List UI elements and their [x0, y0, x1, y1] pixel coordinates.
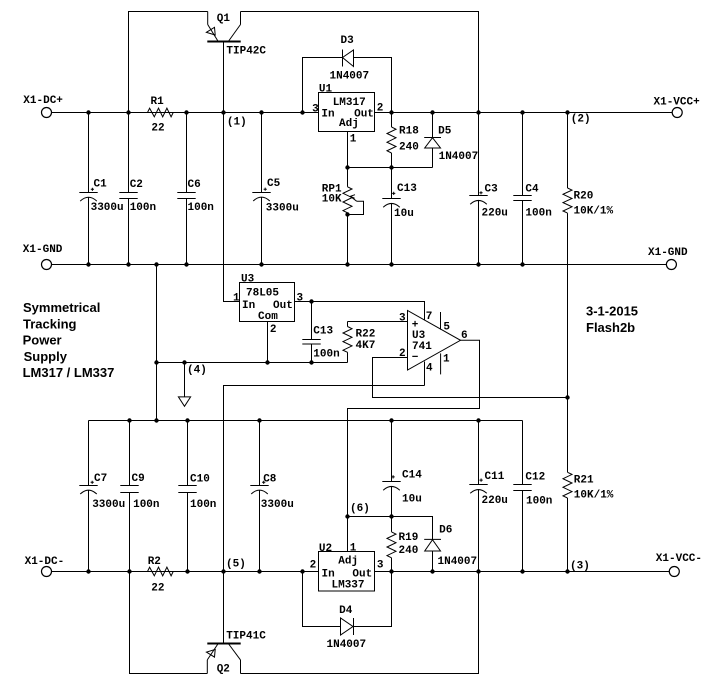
svg-text:4: 4	[426, 363, 433, 375]
svg-text:Tracking: Tracking	[23, 316, 77, 331]
capacitor C1	[79, 113, 123, 265]
svg-text:100n: 100n	[133, 499, 159, 511]
node gnd drop bottom	[154, 418, 158, 422]
transistor Q1	[206, 12, 266, 113]
wire U1 Adj pin down	[347, 132, 349, 168]
node C6 junction	[184, 110, 188, 114]
resistor R19	[387, 517, 418, 572]
wire ground rail	[52, 264, 667, 266]
svg-text:220u: 220u	[482, 208, 508, 220]
svg-text:1N4007: 1N4007	[438, 556, 478, 568]
svg-text:10u: 10u	[402, 494, 422, 506]
wire X1-DC- to U2 In (bottom negative rail)	[52, 571, 319, 573]
resistor R1	[148, 96, 174, 135]
node C9 top	[127, 418, 131, 422]
svg-text:240: 240	[399, 142, 419, 154]
svg-text:Q2: Q2	[217, 664, 230, 676]
node C8 top	[257, 418, 261, 422]
svg-text:100n: 100n	[188, 202, 214, 214]
wire node (4) horizontal	[157, 362, 348, 364]
svg-text:22: 22	[151, 123, 164, 135]
node C1 gnd	[86, 262, 90, 266]
wire op-amp pin 4 to node (5)	[224, 386, 425, 572]
wire Q2 collector to output rail	[241, 572, 479, 674]
svg-text:C4: C4	[525, 184, 539, 196]
node C5 gnd	[259, 262, 263, 266]
node C12 bottom	[520, 569, 524, 573]
svg-text:D3: D3	[341, 35, 355, 47]
capacitor C13 (10u)	[382, 168, 417, 265]
svg-text:In: In	[242, 300, 255, 312]
node C4 gnd	[520, 262, 524, 266]
svg-text:10K/1%: 10K/1%	[574, 490, 614, 502]
svg-text:100n: 100n	[525, 208, 551, 220]
capacitor C8	[250, 421, 294, 572]
node C14/R19 junction	[389, 514, 393, 518]
capacitor C2	[119, 113, 156, 265]
diode D6	[424, 525, 477, 572]
svg-text:R2: R2	[148, 556, 161, 568]
svg-text:1N4007: 1N4007	[439, 151, 479, 163]
svg-text:Adj: Adj	[338, 555, 358, 567]
wire U1 Out rail to X1-VCC+	[375, 112, 673, 114]
resistor R21	[563, 398, 614, 572]
svg-text:C12: C12	[525, 472, 545, 484]
diode D3	[303, 35, 392, 113]
svg-text:3300u: 3300u	[91, 202, 124, 214]
op-amp U3 741	[399, 311, 468, 386]
svg-text:7: 7	[426, 311, 433, 323]
svg-text:U2: U2	[319, 543, 332, 555]
diode D4	[303, 572, 392, 652]
svg-text:D4: D4	[339, 605, 353, 617]
svg-text:R20: R20	[574, 191, 594, 203]
node C14 top	[389, 418, 393, 422]
terminal X1-GND right	[648, 247, 688, 270]
svg-text:4K7: 4K7	[356, 340, 376, 352]
svg-text:1N4007: 1N4007	[327, 639, 367, 651]
resistor R22	[343, 322, 375, 363]
svg-text:Power: Power	[23, 333, 62, 348]
resistor R18	[387, 113, 419, 168]
node Com junction	[265, 360, 269, 364]
node C3 / Q1 collector junction	[476, 110, 480, 114]
svg-text:Q1: Q1	[217, 13, 231, 25]
svg-text:D6: D6	[439, 525, 452, 537]
wire R22 top to op-amp pin 3	[348, 321, 408, 323]
svg-text:C2: C2	[130, 179, 143, 191]
wire node R1-left up to Q1 emitter	[129, 12, 208, 113]
svg-text:1: 1	[350, 134, 357, 146]
node C8 bottom	[257, 569, 261, 573]
svg-text:C8: C8	[263, 474, 277, 486]
regulator U3 78L05	[233, 274, 304, 337]
svg-text:R19: R19	[399, 532, 419, 544]
svg-text:C9: C9	[132, 473, 145, 485]
svg-text:D5: D5	[438, 126, 452, 138]
svg-text:LM317: LM317	[333, 97, 366, 109]
wire U2 Out rail to X1-VCC-	[375, 571, 670, 573]
wire op-amp output 6 to node (6)	[348, 340, 480, 551]
wire Adj node horizontal	[348, 167, 433, 169]
node D5 junction	[430, 110, 434, 114]
terminal X1-DC-	[25, 556, 65, 577]
svg-text:2: 2	[399, 348, 406, 360]
svg-text:Adj: Adj	[339, 118, 359, 130]
svg-text:(6): (6)	[350, 503, 370, 515]
svg-text:(2): (2)	[571, 114, 591, 126]
svg-text:240: 240	[399, 545, 419, 557]
svg-text:C7: C7	[94, 473, 107, 485]
svg-text:1: 1	[443, 354, 450, 366]
node C11 top	[476, 418, 480, 422]
wire U3 Com down	[267, 322, 269, 363]
capacitor C14	[382, 421, 422, 517]
svg-text:X1-VCC-: X1-VCC-	[656, 553, 702, 565]
wire gnd drop from gnd rail to lower gnd rail	[156, 265, 158, 421]
svg-text:3300u: 3300u	[92, 499, 125, 511]
svg-text:C10: C10	[190, 474, 210, 486]
terminal X1-VCC+	[654, 97, 701, 118]
ground symbol	[178, 363, 190, 407]
node RP1 gnd	[345, 262, 349, 266]
svg-text:3-1-2015: 3-1-2015	[586, 304, 638, 319]
wire U3 Out to op-amp pin 7	[295, 302, 425, 321]
node C13 100n top	[309, 299, 313, 303]
svg-text:C3: C3	[485, 184, 499, 196]
svg-text:2: 2	[310, 560, 317, 572]
svg-text:LM317 / LM337: LM317 / LM337	[23, 365, 115, 380]
svg-text:−: −	[412, 352, 419, 364]
svg-text:R22: R22	[356, 329, 376, 341]
wire X1-DC+ to U1 In (top positive rail)	[52, 112, 319, 114]
svg-text:X1-DC-: X1-DC-	[25, 556, 65, 568]
node R18/D3 junction	[389, 110, 393, 114]
terminal X1-DC+	[23, 95, 63, 118]
svg-text:100n: 100n	[526, 496, 552, 508]
svg-text:R18: R18	[399, 126, 419, 138]
node (3) R21 junction	[565, 561, 590, 574]
node R18 bottom junction	[389, 165, 393, 169]
node C5 junction	[259, 110, 263, 114]
capacitor C10	[178, 421, 216, 572]
svg-text:5: 5	[443, 322, 450, 334]
svg-text:Supply: Supply	[24, 349, 68, 364]
svg-text:1: 1	[233, 293, 240, 305]
capacitor C5	[252, 113, 299, 265]
capacitor C9	[120, 421, 159, 572]
svg-text:C1: C1	[94, 179, 108, 191]
node U2 In / D4 junction	[300, 569, 304, 573]
regulator U2 LM337	[310, 543, 384, 592]
node C3 gnd	[476, 262, 480, 266]
svg-text:X1-GND: X1-GND	[648, 247, 688, 259]
svg-text:TIP41C: TIP41C	[226, 631, 266, 643]
terminal X1-GND left	[23, 244, 63, 270]
svg-text:C13: C13	[397, 183, 417, 195]
op-amp regulator U1 LM317	[312, 84, 383, 146]
transistor Q2	[206, 572, 266, 676]
node C13 gnd	[389, 262, 393, 266]
svg-text:C5: C5	[267, 178, 281, 190]
svg-text:220u: 220u	[482, 495, 508, 507]
svg-text:Com: Com	[258, 311, 278, 323]
terminal X1-VCC-	[656, 553, 702, 577]
wire node (6) horizontal	[348, 517, 433, 540]
svg-text:100n: 100n	[130, 202, 156, 214]
svg-text:C11: C11	[485, 471, 505, 483]
svg-text:(5): (5)	[226, 559, 246, 571]
node D6 bottom	[430, 569, 434, 573]
wire op-amp pin 2 feedback to R20/R21 node	[373, 358, 568, 398]
svg-text:10K/1%: 10K/1%	[574, 206, 614, 218]
wire node (1) down to U3 78L05 In	[224, 113, 240, 302]
capacitor C12	[513, 421, 552, 572]
svg-text:C6: C6	[188, 179, 201, 191]
svg-text:In: In	[321, 109, 334, 121]
svg-text:LM337: LM337	[332, 580, 365, 592]
svg-text:C14: C14	[402, 470, 422, 482]
capacitor C13 (100n)	[302, 302, 339, 363]
node C11 / Q2 collector junction	[476, 569, 480, 573]
svg-text:100n: 100n	[190, 499, 216, 511]
node C2 gnd	[126, 262, 130, 266]
node C6 gnd	[184, 262, 188, 266]
wire Q1 collector to output rail	[241, 12, 479, 113]
diode D5	[424, 113, 478, 168]
node C13 100n bottom	[309, 360, 313, 364]
svg-text:3: 3	[399, 313, 406, 325]
svg-text:X1-VCC+: X1-VCC+	[654, 97, 701, 109]
svg-text:3: 3	[312, 104, 319, 116]
node (1)	[221, 110, 246, 128]
node R1 left junction	[126, 110, 130, 114]
svg-text:3: 3	[377, 560, 384, 572]
title text block	[23, 300, 115, 380]
node gnd drop	[154, 262, 158, 266]
node C1 junction	[86, 110, 90, 114]
resistor R2	[148, 556, 174, 595]
svg-text:(4): (4)	[187, 365, 207, 377]
node Adj/RP1 junction	[345, 165, 349, 169]
capacitor C3	[469, 113, 508, 265]
svg-text:(1): (1)	[227, 117, 247, 129]
node C9 / R2 left junction	[127, 569, 131, 573]
svg-text:TIP42C: TIP42C	[226, 46, 266, 58]
svg-text:X1-GND: X1-GND	[23, 244, 63, 256]
svg-text:3300u: 3300u	[261, 499, 294, 511]
capacitor C11	[469, 421, 508, 572]
svg-text:741: 741	[412, 341, 432, 353]
node (6)	[345, 503, 370, 519]
node C10 bottom	[185, 569, 189, 573]
svg-text:10u: 10u	[394, 208, 414, 220]
svg-text:3300u: 3300u	[266, 203, 299, 215]
node (2) R20 junction	[565, 110, 590, 125]
svg-text:R21: R21	[574, 475, 594, 487]
svg-text:1: 1	[350, 543, 357, 555]
svg-text:1N4007: 1N4007	[330, 71, 370, 83]
svg-text:2: 2	[270, 324, 277, 336]
svg-text:C13: C13	[313, 326, 333, 338]
wire lower ground rail	[89, 420, 523, 422]
svg-text:10K: 10K	[322, 194, 342, 206]
node C4 junction	[520, 110, 524, 114]
trimmer RP1	[322, 168, 364, 265]
svg-text:22: 22	[151, 583, 164, 595]
capacitor C6	[177, 113, 214, 265]
svg-text:Symmetrical: Symmetrical	[23, 300, 100, 315]
date text block	[586, 304, 638, 336]
svg-text:U3: U3	[241, 274, 255, 286]
wire node R2-left down to Q2 emitter	[130, 572, 208, 674]
svg-text:(3): (3)	[570, 561, 590, 573]
svg-text:3: 3	[297, 293, 304, 305]
node R19/D4 junction	[389, 569, 393, 573]
node U1 In / D3 junction	[300, 110, 304, 114]
capacitor C4	[513, 113, 552, 265]
svg-text:100n: 100n	[313, 349, 339, 361]
node (5)	[221, 559, 246, 574]
svg-text:78L05: 78L05	[246, 288, 279, 300]
svg-text:R1: R1	[151, 96, 165, 108]
node R20/R21 junction	[565, 395, 569, 399]
svg-text:Flash2b: Flash2b	[586, 320, 635, 335]
node (4)	[154, 360, 207, 376]
svg-text:X1-DC+: X1-DC+	[23, 95, 63, 107]
node C10 top	[185, 418, 189, 422]
svg-text:U1: U1	[319, 84, 333, 96]
node C7 bottom	[86, 569, 90, 573]
resistor R20	[563, 113, 614, 398]
capacitor C7	[79, 421, 125, 572]
